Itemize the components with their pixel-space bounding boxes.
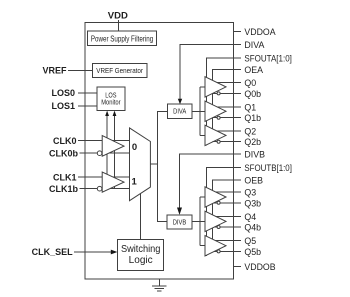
svg-text:SFOUTB[1:0]: SFOUTB[1:0]	[244, 163, 292, 174]
svg-text:VDDOA: VDDOA	[244, 27, 276, 38]
bubble Q5b	[217, 250, 220, 253]
svg-text:Q0b: Q0b	[244, 89, 261, 100]
wire CLK0b	[80, 152, 130, 154]
svg-text:DIVB: DIVB	[244, 150, 265, 161]
svg-text:LOS: LOS	[105, 92, 116, 99]
svg-text:Switching: Switching	[121, 244, 161, 255]
svg-text:Q2b: Q2b	[244, 137, 261, 148]
wire Q1b	[213, 117, 242, 119]
pin SFOUTB[1:0]	[234, 166, 242, 168]
bubble Q0b	[217, 92, 220, 95]
wire T6 input stub	[200, 245, 205, 247]
wire VREF	[68, 69, 93, 71]
svg-text:Logic: Logic	[129, 255, 153, 266]
wire DIVB output	[192, 221, 205, 223]
pin VDDOA	[234, 30, 242, 32]
wire Q0	[217, 82, 241, 84]
wire Q2	[217, 130, 241, 132]
pin DIVB	[234, 153, 242, 155]
svg-text:Q5: Q5	[244, 236, 256, 247]
wire SFOUTB feed	[207, 167, 234, 256]
svg-text:DIVB: DIVB	[173, 219, 187, 226]
wire cluster A bus	[199, 87, 201, 135]
bubble Q4b	[217, 226, 220, 229]
bubble Q1b	[217, 116, 220, 119]
DIVA box	[167, 104, 192, 118]
svg-text:Q3b: Q3b	[244, 198, 261, 209]
arrowhead DIVB	[177, 208, 182, 215]
pin SFOUTA[1:0]	[234, 57, 242, 59]
wire LOS0	[78, 92, 97, 94]
svg-text:OEB: OEB	[244, 176, 263, 187]
svg-text:Q4b: Q4b	[244, 223, 261, 234]
output driver Q0	[205, 77, 226, 97]
arrowhead DIVA	[178, 99, 182, 105]
svg-text:VREF: VREF	[42, 66, 67, 76]
wire LOS tap 2	[114, 112, 116, 189]
svg-text:Q4: Q4	[244, 212, 256, 223]
arrowhead CLK_SEL	[111, 250, 118, 255]
svg-text:LOS1: LOS1	[51, 101, 75, 111]
svg-text:Q2: Q2	[244, 126, 256, 137]
wire OEA feed	[212, 70, 233, 142]
wire DIVA pin feed	[180, 45, 234, 99]
wire LOS1	[78, 105, 97, 107]
ground	[158, 279, 160, 286]
mux	[130, 128, 151, 201]
wire T1 input stub	[200, 86, 205, 88]
bubble CLK1b	[97, 186, 102, 191]
svg-text:Q0: Q0	[244, 78, 256, 89]
svg-text:1: 1	[132, 176, 138, 187]
wire CLK1b	[80, 188, 130, 190]
svg-text:0: 0	[132, 142, 137, 153]
pin OEB	[234, 179, 242, 181]
svg-text:Monitor: Monitor	[101, 100, 121, 107]
pin VDDOB	[234, 265, 242, 267]
svg-text:CLK_SEL: CLK_SEL	[32, 247, 74, 257]
input buffer CLK0	[102, 136, 124, 157]
wire Q4b	[214, 226, 241, 228]
output driver Q5	[205, 236, 226, 256]
bubble Q3b	[217, 201, 220, 204]
Power Supply Filtering box	[88, 31, 157, 45]
svg-text:CLK1: CLK1	[53, 172, 77, 182]
wire CLK_SEL	[74, 251, 113, 253]
bubble Q2b	[217, 140, 220, 143]
wire Q4	[216, 215, 242, 217]
wire Q1	[217, 106, 241, 108]
svg-text:Q5b: Q5b	[244, 247, 261, 258]
wire Q0b	[213, 92, 242, 94]
wire mux output	[150, 163, 157, 165]
input buffer CLK1	[102, 172, 124, 192]
wire CLK1	[78, 176, 130, 178]
wire Q5b	[214, 250, 241, 252]
wire Q2b	[213, 141, 242, 143]
svg-text:DIVA: DIVA	[173, 109, 186, 116]
wire Q3b	[214, 202, 241, 204]
arrowhead LOS tap 2	[113, 111, 117, 116]
wire cluster B bus	[199, 197, 201, 246]
Switching Logic box	[118, 240, 164, 271]
wire DIVA output	[192, 111, 205, 113]
bubble CLK0b	[97, 151, 102, 156]
output driver Q4	[205, 211, 226, 231]
svg-text:Power Supply Filtering: Power Supply Filtering	[91, 35, 153, 44]
output driver Q3	[205, 187, 226, 207]
svg-text:CLK1b: CLK1b	[49, 184, 79, 194]
wire OEB feed	[212, 180, 233, 252]
arrowhead LOS tap 1	[105, 111, 109, 116]
wire T3 input stub	[200, 134, 205, 136]
VREF Generator box	[93, 64, 147, 78]
wire CLK0	[78, 140, 130, 142]
svg-text:OEA: OEA	[244, 65, 263, 76]
wire T4 input stub	[200, 196, 205, 198]
wire divider bus	[158, 112, 168, 222]
output driver Q2	[205, 125, 226, 145]
svg-text:LOS0: LOS0	[51, 88, 75, 98]
svg-text:CLK0: CLK0	[53, 136, 77, 146]
svg-text:VREF Generator: VREF Generator	[96, 66, 143, 75]
wire VDD	[117, 20, 119, 31]
svg-text:Q1: Q1	[244, 102, 256, 113]
pin DIVA	[234, 44, 242, 46]
svg-text:DIVA: DIVA	[244, 40, 265, 51]
svg-text:VDDOB: VDDOB	[244, 262, 275, 273]
pin OEA	[234, 69, 242, 71]
DIVB box	[167, 215, 192, 229]
wire LOS tap 1	[106, 112, 108, 177]
wire Q5	[216, 240, 242, 242]
output driver Q1	[205, 101, 226, 121]
wire SFOUTA feed	[207, 58, 234, 146]
svg-text:Q1b: Q1b	[244, 113, 261, 124]
svg-text:VDD: VDD	[108, 11, 128, 22]
LOS Monitor box	[97, 87, 125, 111]
svg-text:Q3: Q3	[244, 188, 256, 199]
outer chip boundary box	[85, 23, 233, 279]
wire Q3	[216, 191, 242, 193]
wire DIVB pin feed	[180, 154, 234, 209]
svg-text:SFOUTA[1:0]: SFOUTA[1:0]	[244, 53, 292, 64]
svg-text:CLK0b: CLK0b	[49, 148, 79, 158]
wire mux select	[140, 193, 142, 239]
